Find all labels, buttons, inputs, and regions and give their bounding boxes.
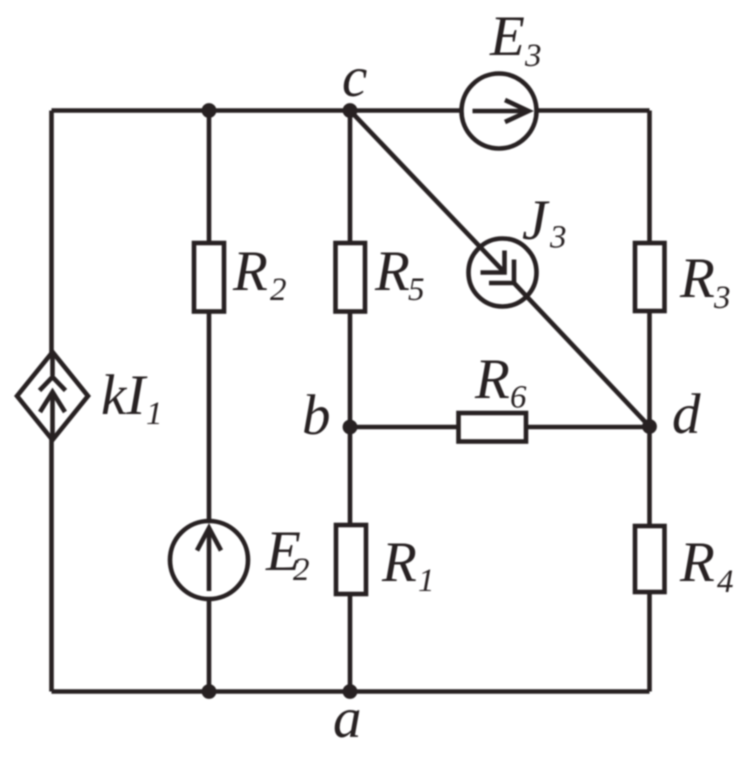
voltage source E2 arrow	[207, 532, 212, 591]
node c junction dot	[343, 103, 358, 118]
resistor R6 body	[459, 413, 527, 442]
svg-text:3: 3	[713, 280, 731, 316]
svg-text:1: 1	[418, 563, 435, 599]
node d junction dot	[642, 419, 657, 434]
svg-text:6: 6	[510, 380, 527, 416]
resistor R3 body	[635, 243, 665, 311]
resistor R4 body	[635, 526, 665, 592]
svg-text:3: 3	[549, 220, 567, 256]
svg-text:R: R	[374, 240, 410, 303]
voltage source E2 body	[170, 521, 248, 599]
resistor R5 body	[336, 243, 366, 312]
svg-text:R: R	[679, 531, 715, 594]
svg-text:c: c	[342, 46, 367, 109]
wire bottom bus	[52, 689, 650, 694]
wire right bus	[647, 111, 652, 692]
current source J3 double arrowhead	[481, 251, 505, 273]
svg-text:d: d	[672, 383, 701, 446]
wire middle branch c-b-a	[348, 111, 353, 692]
svg-text:3: 3	[524, 38, 542, 74]
wire diagonal c to J3	[350, 111, 505, 273]
svg-text:E: E	[489, 5, 525, 68]
svg-text:R: R	[381, 531, 417, 594]
dependent current source kI1 body	[17, 352, 88, 440]
wire b-d branch	[350, 425, 650, 430]
svg-text:kI: kI	[101, 364, 148, 427]
svg-text:R: R	[232, 240, 268, 303]
svg-text:1: 1	[146, 396, 163, 432]
voltage source E3 arrow	[473, 109, 527, 114]
junction dot at R2 top	[202, 103, 217, 118]
wire left bus	[49, 111, 54, 692]
svg-text:2: 2	[293, 552, 310, 588]
dependent current source kI1 arrow	[50, 352, 55, 376]
node b junction dot	[343, 420, 358, 435]
svg-text:2: 2	[270, 272, 287, 308]
wire diagonal J3 to d	[514, 283, 650, 427]
junction dot at E2 bottom	[202, 684, 217, 699]
current source J3 body	[469, 239, 537, 307]
svg-text:R: R	[474, 348, 510, 411]
voltage source E3 body	[462, 74, 537, 149]
svg-text:4: 4	[717, 564, 734, 600]
resistor R2 body	[194, 243, 224, 312]
wire R2-E2 branch	[207, 111, 212, 692]
svg-text:J: J	[522, 189, 550, 252]
svg-text:b: b	[302, 384, 331, 447]
node a junction dot	[343, 684, 358, 699]
svg-text:5: 5	[408, 272, 425, 308]
svg-text:R: R	[679, 247, 715, 310]
svg-text:a: a	[333, 687, 362, 750]
resistor R1 body	[336, 525, 366, 594]
wire top bus	[52, 108, 650, 113]
